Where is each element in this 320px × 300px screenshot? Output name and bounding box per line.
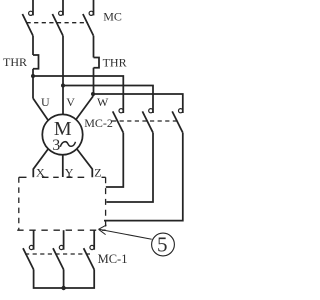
wire L1 top: [32, 0, 34, 15]
contactor MC-1 pole 1 blade: [23, 248, 34, 269]
contactor MC-2 pole 1 blade: [113, 111, 124, 132]
wire phase3 below MC: [93, 36, 95, 58]
node U junction dot: [31, 74, 35, 78]
wire L3 top: [93, 0, 95, 15]
contactor MC pole 2 fixed contact: [59, 11, 63, 15]
contactor MC-1 pole 3 blade: [84, 248, 95, 269]
wire branch A to MC-2 pole1: [33, 76, 123, 113]
contactor MC-1 pole 1 feed: [33, 230, 35, 250]
wire phase3 to node: [93, 68, 95, 96]
contactor MC-1 pole 3 fixed contact: [90, 245, 94, 249]
wire MC-2 pole1 return to box: [106, 133, 124, 187]
svg-text:MC-1: MC-1: [98, 252, 128, 266]
hidden wiring box (dashed) region 5 : top edge: [19, 176, 106, 178]
contactor MC-1 pole 1 fixed contact: [29, 245, 33, 249]
callout arrow shaft: [100, 229, 152, 239]
svg-text:MC: MC: [103, 10, 122, 24]
hidden wiring box : bottom edge: [17, 229, 105, 231]
callout circle 5: [152, 233, 175, 256]
contactor MC-2 pole 1 fixed contact: [119, 109, 123, 113]
node W junction dot: [91, 92, 95, 96]
contactor MC pole 3 blade: [83, 14, 94, 36]
svg-text:THR: THR: [103, 55, 127, 69]
contactor MC-1 pole 2 fixed contact: [59, 245, 63, 249]
callout arrowhead: [99, 225, 107, 235]
contactor MC pole 3 fixed contact: [89, 11, 93, 15]
contactor MC-1 pole 2 feed: [63, 230, 65, 250]
wire X stub: [33, 149, 48, 177]
contactor MC pole 2 blade: [52, 14, 63, 36]
wire phase2 below MC: [62, 36, 64, 115]
wire L2 top: [62, 0, 64, 15]
contactor MC pole 1 blade: [22, 14, 33, 36]
node V junction dot: [61, 84, 65, 88]
hidden wiring box : left edge: [18, 177, 20, 230]
wire Z stub: [77, 149, 93, 177]
wire W diagonal to motor: [76, 96, 93, 120]
hidden wiring box : right edge: [105, 177, 107, 230]
svg-text:5: 5: [157, 232, 168, 256]
wire MC-2 pole2 return to box: [106, 133, 153, 202]
contactor MC pole 1 fixed contact: [29, 11, 33, 15]
wire branch B to MC-2 pole2: [63, 86, 153, 114]
svg-text:Y: Y: [65, 166, 74, 180]
motor winding tilde: [60, 142, 75, 147]
contactor MC-2 linkage (dashed): [112, 120, 179, 122]
svg-text:3: 3: [52, 137, 60, 154]
contactor MC-2 pole 3 blade: [172, 111, 183, 132]
contactor MC-1 pole 2 blade: [53, 248, 64, 269]
contactor MC-2 pole 3 fixed contact: [179, 109, 183, 113]
contactor MC-2 pole 2 blade: [142, 111, 153, 132]
wire MC-2 pole3 return to box: [104, 133, 183, 221]
contactor MC-1 linkage (dashed): [25, 253, 92, 255]
svg-text:Z: Z: [94, 166, 101, 180]
svg-text:U: U: [41, 95, 50, 109]
thermal relay THR heater (right): [94, 58, 100, 68]
wire phase1 to node: [32, 69, 34, 99]
contactor MC-1 pole 3 feed: [93, 230, 95, 250]
wire branch C to MC-2 pole3: [93, 94, 183, 113]
svg-text:X: X: [36, 165, 45, 179]
svg-text:THR: THR: [3, 55, 27, 69]
thermal relay THR heater (left): [33, 55, 39, 69]
wire MC-1 pole2 to bus: [63, 270, 65, 289]
svg-text:W: W: [97, 95, 109, 109]
svg-text:V: V: [66, 95, 75, 109]
star point junction dot: [61, 286, 65, 290]
wire phase1 below MC: [32, 36, 34, 55]
wire Y stub: [62, 155, 64, 177]
contactor MC linkage (dashed): [27, 22, 89, 24]
star point bus: [34, 270, 95, 289]
wire U diagonal to motor: [33, 98, 48, 120]
contactor MC-2 pole 2 fixed contact: [149, 109, 153, 113]
motor M circle: [42, 114, 82, 154]
svg-text:MC-2: MC-2: [84, 116, 113, 130]
